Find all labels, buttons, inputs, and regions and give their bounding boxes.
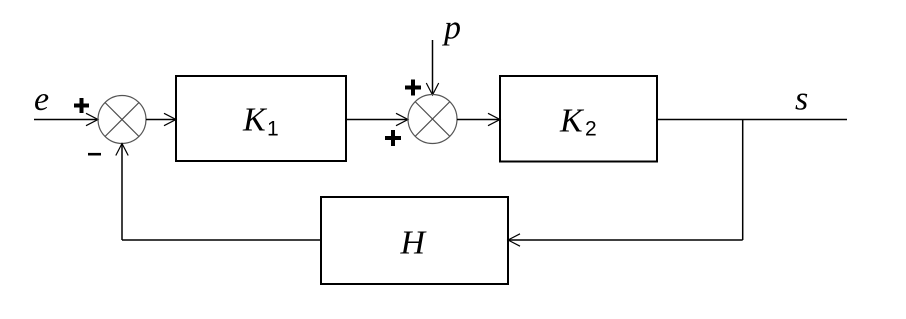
summing junction S2 — [408, 95, 457, 144]
arrowhead into summing junction S1 — [86, 113, 98, 125]
arrowhead into H — [508, 234, 520, 246]
wire H to left — [122, 239, 321, 241]
block K2 — [500, 76, 657, 162]
wire K1 to S2 — [346, 119, 408, 121]
wire p input — [432, 40, 434, 95]
wire feedback up to S1 — [121, 144, 123, 241]
wire S1 to K1 — [146, 119, 176, 121]
wire feedback right to H — [508, 239, 743, 241]
block H — [321, 197, 508, 284]
node branch — [742, 120, 744, 241]
wire K2 output — [657, 119, 847, 121]
svg-text:H: H — [400, 225, 428, 262]
svg-text:1: 1 — [267, 118, 279, 141]
arrowhead into S1 from below — [116, 144, 128, 156]
arrowhead into K2 — [488, 113, 500, 125]
arrowhead into K1 — [164, 113, 176, 125]
summing junction S1 — [98, 96, 146, 144]
block K1 — [176, 76, 346, 161]
wire S2 to K2 — [457, 119, 500, 121]
svg-text:K: K — [242, 102, 268, 139]
arrowhead into S2 from top — [426, 83, 438, 95]
plus sign lower at S2 — [385, 130, 401, 146]
plus sign upper at S2 — [405, 80, 421, 96]
minus sign at S1 feedback input — [88, 153, 101, 156]
svg-text:s: s — [795, 81, 808, 118]
svg-text:2: 2 — [585, 118, 597, 141]
plus sign at S1 input — [74, 98, 89, 113]
svg-text:K: K — [559, 103, 585, 140]
wire e input — [34, 119, 98, 121]
arrowhead into summing junction S2 — [396, 113, 408, 125]
svg-text:p: p — [442, 10, 461, 47]
svg-text:e: e — [34, 81, 49, 118]
